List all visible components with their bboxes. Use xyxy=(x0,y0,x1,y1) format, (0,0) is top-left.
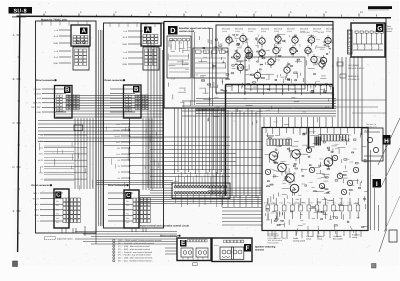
svg-text:(1/2W): (1/2W) xyxy=(274,30,280,33)
svg-text:GND: GND xyxy=(53,42,58,45)
svg-text:REC L: REC L xyxy=(33,192,40,195)
svg-text:TUNER: TUNER xyxy=(114,135,121,138)
svg-text:PB5: PB5 xyxy=(126,217,129,220)
svg-text:(1/2W): (1/2W) xyxy=(222,30,228,33)
svg-text:(F) — Parallel : Any terminal: (F) — Parallel : Any terminal terminal xyxy=(118,254,151,257)
svg-text:A: A xyxy=(13,33,15,37)
svg-text:PHONO: PHONO xyxy=(113,129,120,132)
svg-text:R609 (Gy)WH: R609 (Gy)WH xyxy=(268,242,280,245)
svg-text:C: C xyxy=(12,121,14,125)
svg-text:PB6: PB6 xyxy=(126,221,129,224)
svg-text:GND: GND xyxy=(122,43,127,46)
svg-text:A: A xyxy=(82,28,87,35)
svg-text:TAPE: TAPE xyxy=(38,153,43,156)
svg-text:GND: GND xyxy=(122,63,127,66)
svg-text:(E) — Terminal : wire terminal: (E) — Terminal : wire terminal terminal xyxy=(118,251,153,254)
svg-text:TAPE PB: TAPE PB xyxy=(33,102,42,105)
svg-text:PB1: PB1 xyxy=(126,200,129,203)
svg-text:Direct connector: Direct connector xyxy=(105,79,123,82)
svg-text:PB5: PB5 xyxy=(56,217,59,220)
svg-text:Equalizer circuit and selectio: Equalizer circuit and selection xyxy=(179,27,213,30)
svg-text:PB2: PB2 xyxy=(126,204,129,207)
svg-text:A: A xyxy=(146,27,151,34)
svg-text:GND: GND xyxy=(37,111,42,114)
svg-text:Tune 58 (L.P.): Tune 58 (L.P.) xyxy=(366,125,377,128)
svg-text:TUNER: TUNER xyxy=(34,92,41,95)
svg-text:GND: GND xyxy=(53,62,58,65)
svg-text:F: F xyxy=(246,245,250,252)
svg-text:(D) — (BG) : white terminal te: (D) — (BG) : white terminal terminal xyxy=(118,248,150,251)
svg-text:Input terminal and operation c: Input terminal and operation control cir… xyxy=(140,225,189,228)
svg-text:+B adj: +B adj xyxy=(364,129,370,132)
svg-text:PHONO: PHONO xyxy=(34,88,42,91)
svg-text:(C) — (AM) : Main terminal ter: (C) — (AM) : Main terminal terminal xyxy=(118,245,150,248)
svg-text:Direct connector: Direct connector xyxy=(36,79,54,82)
svg-text:(1/2W): (1/2W) xyxy=(248,30,254,33)
svg-text:(1/2W): (1/2W) xyxy=(287,30,293,33)
svg-text:A ALARM GE: A ALARM GE xyxy=(348,78,360,81)
svg-text:AC105 (9V): AC105 (9V) xyxy=(300,31,310,34)
svg-text:circuit: circuit xyxy=(387,30,393,33)
svg-text:Direct connector: Direct connector xyxy=(160,235,178,238)
svg-text:D: D xyxy=(170,26,176,35)
svg-text:GND: GND xyxy=(39,172,44,175)
svg-text:circuit: circuit xyxy=(352,236,358,239)
svg-text:E: E xyxy=(181,240,186,247)
svg-text:(1/2W): (1/2W) xyxy=(235,30,241,33)
svg-text:OPER REG.: OPER REG. xyxy=(348,75,360,78)
svg-text:(AM) — Black symbol: locking c: (AM) — Black symbol: locking connector t… xyxy=(118,239,162,242)
svg-text:PB2: PB2 xyxy=(56,204,59,207)
svg-text:SERVICE SUPPLY: SERVICE SUPPLY xyxy=(348,67,365,70)
svg-text:GND: GND xyxy=(35,214,40,217)
svg-text:(1/2W): (1/2W) xyxy=(326,30,332,33)
svg-text:circuit: circuit xyxy=(317,238,323,241)
svg-text:PB6: PB6 xyxy=(56,221,59,224)
svg-text:REC R: REC R xyxy=(33,197,40,200)
svg-text:LM1 (MAIN): LM1 (MAIN) xyxy=(348,64,359,67)
svg-text:8: 8 xyxy=(113,260,114,263)
svg-text:Direct connector: Direct connector xyxy=(32,184,50,187)
svg-text:flow switch: flow switch xyxy=(333,238,343,241)
svg-text:D: D xyxy=(12,165,14,169)
svg-text:H: H xyxy=(384,138,389,145)
svg-text:PB R: PB R xyxy=(34,209,39,212)
svg-text:PB1: PB1 xyxy=(56,200,59,203)
svg-text:C: C xyxy=(56,192,61,199)
svg-text:TAPE REC: TAPE REC xyxy=(31,106,41,109)
svg-text:(G) — (AM) : Main connection t: (G) — (AM) : Main connection terminal xyxy=(118,257,153,260)
svg-text:B: B xyxy=(65,87,70,94)
svg-text:AUX: AUX xyxy=(37,97,42,100)
svg-text:E: E xyxy=(13,209,15,213)
svg-text:(H) — (AL) : Symbol terminal t: (H) — (AL) : Symbol terminal terminal xyxy=(118,260,152,263)
svg-text:(B) — Socketed : white termina: (B) — Socketed : white terminal terminal xyxy=(118,242,154,245)
svg-text:Adjustment point: Adjustment point xyxy=(57,237,73,240)
svg-text:Mount for 740AC only: Mount for 740AC only xyxy=(41,18,67,21)
svg-text:circuit: circuit xyxy=(306,238,312,241)
svg-text:I: I xyxy=(376,181,378,188)
svg-text:(1/2W): (1/2W) xyxy=(261,30,267,33)
svg-text:TAPE: TAPE xyxy=(115,141,120,144)
svg-text:muting switch: muting switch xyxy=(293,240,305,243)
svg-text:B: B xyxy=(13,77,15,81)
svg-text:Speaker-switching: Speaker-switching xyxy=(255,246,276,249)
svg-text:AC106: AC106 xyxy=(318,31,324,34)
